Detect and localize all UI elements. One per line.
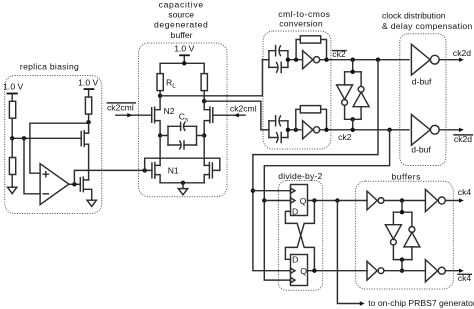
transistor N2 right drain lead: [204, 101, 210, 110]
dashed box clock distribution: [400, 34, 446, 166]
node M1 drain dot: [86, 120, 90, 124]
node bias input dot: [143, 168, 147, 172]
wire latch right branch upper: [360, 72, 362, 87]
node ck2bar clk1 dot: [251, 189, 255, 193]
buffer d-buf bottom triangle: [411, 114, 430, 145]
node left source dot: [158, 133, 162, 137]
inverter U2 triangle: [303, 51, 313, 69]
wire keeper2 left lower: [392, 245, 394, 260]
flip-flop FF1 body: [291, 185, 308, 216]
node supply rail dot: [182, 61, 186, 65]
resistor R1 (upper divider): [9, 101, 15, 118]
transistor N1 right drain lead: [204, 164, 209, 166]
feedback resistor RF2: [300, 106, 320, 113]
wire cross-couple Q1 to D2: [285, 201, 314, 260]
svg-text:buffer: buffer: [171, 30, 193, 40]
capacitor Cs bottom edge with plates: [168, 144, 197, 146]
svg-text:1.0 V: 1.0 V: [3, 81, 23, 91]
svg-text:D: D: [292, 254, 298, 264]
wire R1 to node A: [11, 118, 13, 138]
wire left source to N1: [159, 136, 161, 166]
inverter U8 triangle (down): [385, 225, 401, 240]
wire node to R2: [11, 138, 13, 157]
svg-text:ck4: ck4: [458, 187, 472, 197]
wire keeper2 right upper: [411, 212, 413, 226]
svg-text:D: D: [292, 206, 298, 216]
transistor N1 left drain lead: [155, 164, 160, 166]
resistor R2 (lower divider): [9, 158, 15, 175]
ground (N1 tail): [178, 189, 187, 195]
node keeper2 top dot: [400, 210, 404, 214]
inverter U6 bubble: [378, 198, 384, 204]
arrow ck2cml-bar (points right): [127, 113, 132, 117]
capacitor C2b bottom edges: [269, 137, 288, 139]
wire ck2cml-bar input stub: [116, 114, 152, 116]
transistor N1 right channel bar: [208, 163, 210, 179]
wire bottom channel input: [261, 129, 269, 131]
wire RL left to drain node: [159, 91, 161, 96]
wire FF2 Q output to buffers: [308, 270, 368, 272]
node latch top dot: [351, 58, 355, 62]
node RF1 output dot: [324, 58, 328, 62]
transistor M2 drain lead: [83, 179, 88, 181]
op-amp plus sign: [43, 172, 48, 177]
capacitor Cs top edge with plates: [168, 125, 197, 127]
svg-text:replica biasing: replica biasing: [20, 61, 79, 71]
transistor N2 left gate bar: [151, 108, 153, 123]
supply bar buffer: [179, 54, 190, 56]
node RF2 output dot: [324, 128, 328, 132]
inverter U11 triangle (large): [425, 260, 437, 282]
node op-amp output dot: [72, 182, 76, 186]
svg-text:conversion: conversion: [279, 19, 323, 29]
feedback resistor RF1: [300, 36, 320, 43]
inverter U6 triangle: [367, 191, 377, 210]
arrow ck4: [459, 198, 464, 202]
wire latch bottom stem: [352, 119, 354, 130]
arrow ck2d: [459, 58, 464, 62]
wire node to op-amp minus input: [24, 138, 40, 194]
node A wire to M1 gate: [12, 137, 81, 139]
transistor M1 drain lead: [84, 122, 88, 133]
wire ck4 output: [445, 200, 460, 202]
node ck2bar branch dot: [376, 58, 380, 62]
wire ck2d-bar output: [439, 129, 460, 131]
inverter U9 bubble: [409, 227, 415, 233]
inverter U11 bubble: [438, 267, 445, 274]
wire N1 source rail: [160, 182, 204, 184]
node N1 source rail dot: [181, 181, 185, 185]
capacitor C2b plates: [276, 132, 281, 144]
svg-text:degenerated: degenerated: [154, 20, 208, 30]
overline ck4-bar: [458, 273, 471, 275]
wire ck4-bar output: [445, 270, 460, 272]
node A second junction dot: [22, 136, 26, 140]
supply bar left: [7, 93, 18, 95]
ground (left divider): [8, 187, 17, 193]
wire feedback to op-amp plus input: [30, 123, 89, 173]
flip-flop FF1 clk1 triangle: [291, 188, 296, 193]
node PRBS tap dot: [335, 198, 339, 202]
inverter U5 triangle (up): [353, 92, 369, 107]
svg-text:ck2cml: ck2cml: [107, 102, 134, 112]
transistor N1 right source lead: [204, 175, 209, 183]
wire clk2 branch to FF1: [264, 200, 290, 202]
wire keeper2 left upper: [392, 212, 394, 225]
inverter U4 bubble: [342, 100, 348, 106]
wire N1 rail to ground: [182, 183, 184, 189]
node keeper2 bottom loop dot: [400, 257, 404, 261]
capacitor loop bottom channel frame: [269, 121, 301, 138]
wire bias output to N1 gates: [74, 170, 151, 184]
wire left output up to cml top channel: [160, 60, 262, 96]
capacitor C2a plates: [276, 115, 281, 127]
svg-text:Q: Q: [300, 196, 307, 206]
capacitor loop top channel frame: [269, 51, 301, 68]
svg-text:N2: N2: [164, 106, 175, 116]
wire latch top loop: [345, 71, 362, 73]
wire RL right to drain node: [203, 91, 205, 102]
wire keeper2 bottom stem: [401, 260, 403, 271]
capacitor C1b bottom edges: [269, 66, 288, 68]
node FF2 Q dot: [312, 269, 316, 273]
node left drain dot: [158, 94, 162, 98]
wire ck2bar output: [320, 59, 410, 61]
transistor M1 source lead: [84, 144, 88, 180]
wire latch left branch upper: [344, 72, 346, 85]
wire right output down to cml bottom channel: [204, 101, 261, 130]
wire ck2 output: [320, 129, 410, 131]
capacitor C2a top edges: [269, 120, 288, 122]
capacitor Cs bottom plates: [179, 140, 184, 149]
inverter U7 bubble: [438, 197, 445, 204]
transistor N1 left source lead: [155, 175, 160, 183]
wire U6 to U7: [384, 200, 426, 202]
wire keeper2 right lower: [411, 247, 413, 260]
capacitor Cs top plates: [181, 122, 186, 131]
transistor N2 left drain lead: [155, 96, 161, 110]
dashed box buffers: [355, 181, 453, 289]
svg-text:1.0 V: 1.0 V: [78, 77, 98, 87]
transistor M2 source lead: [83, 189, 91, 200]
overline ck2-bar: [333, 50, 347, 52]
capacitor C1b plates: [276, 62, 281, 74]
svg-text:ck2: ck2: [338, 132, 352, 142]
resistor RL right: [201, 74, 207, 91]
transistor N1 right gate bar: [211, 163, 213, 178]
svg-text:1.0 V: 1.0 V: [174, 43, 194, 53]
transistor M2 channel bar: [82, 177, 84, 191]
wire supply stem: [183, 56, 185, 63]
svg-text:ck2cml: ck2cml: [230, 103, 257, 113]
dashed box buffer: [139, 43, 228, 197]
wire top channel input: [262, 59, 269, 61]
capacitor C1a plates: [276, 45, 281, 57]
transistor N2 left source lead: [155, 121, 161, 136]
transistor N2 left channel bar: [154, 107, 156, 123]
svg-text:buffers: buffers: [392, 172, 421, 182]
transistor N2 right source lead: [204, 121, 210, 136]
inverter U10 triangle: [367, 261, 377, 280]
wire U10 to U11: [384, 270, 426, 272]
inverter U3 triangle: [303, 121, 313, 139]
resistor RL left: [157, 74, 163, 91]
wire ck2 to divider clk: [264, 130, 389, 280]
node FF1 Q dot: [312, 198, 316, 202]
wire ck2d output: [439, 59, 460, 61]
wire latch right branch lower: [360, 107, 362, 120]
node latch top loop dot: [351, 70, 355, 74]
inverter U10 bubble: [378, 268, 384, 274]
overline for ck2cml-bar: [107, 102, 135, 104]
wire supply to R3: [88, 90, 90, 97]
transistor N2 right channel bar: [209, 107, 211, 123]
buffer d-buf top bubble: [430, 55, 439, 64]
arrow ck2cml (points left): [234, 113, 239, 117]
svg-text:N1: N1: [168, 166, 179, 176]
svg-text:to on-chip PRBS7 generator: to on-chip PRBS7 generator: [368, 298, 474, 308]
inverter U9 triangle (up): [404, 232, 420, 247]
flip-flop FF1 clk2 triangle: [291, 198, 296, 203]
buffer d-buf top triangle: [411, 44, 430, 75]
capacitor Cs loop frame: [160, 126, 204, 145]
wire R2 to ground: [11, 175, 13, 188]
flip-flop FF2 body: [291, 255, 308, 286]
dashed box cml-to-cmos: [263, 31, 331, 149]
node top interstage dot: [400, 198, 404, 202]
wire right source to N1: [203, 136, 205, 166]
wire keeper2 top stem: [401, 201, 403, 213]
wire latch bottom loop: [345, 118, 362, 120]
wire ck2cml input stub: [213, 114, 245, 116]
transistor N1 left channel bar: [154, 163, 156, 179]
flip-flop FF2 clk2 triangle: [291, 277, 296, 282]
wire ck2bar to divider clk: [253, 60, 378, 271]
wire keeper2 top loop: [393, 211, 412, 213]
transistor N2 right gate bar: [212, 108, 214, 123]
dashed box replica biasing: [5, 76, 102, 214]
inverter U2 bubble: [314, 57, 320, 63]
node right source dot: [202, 133, 206, 137]
capacitor C1a top edges: [269, 50, 288, 52]
wire bias rail over N1: [145, 158, 220, 170]
transistor N1 left gate bar: [151, 163, 153, 178]
node ck2 clk2 dot: [262, 198, 266, 202]
op-amp U1: [40, 164, 69, 205]
node right drain dot: [202, 99, 206, 103]
svg-text:ck2d: ck2d: [453, 48, 471, 58]
svg-text:d-buf: d-buf: [411, 144, 431, 154]
ground (M2 source): [87, 200, 96, 206]
transistor M1 channel bar: [83, 131, 85, 147]
wire keeper2 bottom loop: [393, 259, 412, 261]
buffer d-buf bottom bubble: [430, 125, 439, 134]
node top channel input dot: [286, 58, 290, 62]
feedback resistor RF2 leads: [296, 109, 327, 130]
wire top rail: [160, 63, 204, 73]
transistor M1 gate bar: [80, 132, 82, 146]
wire op-amp output to M2 gate: [69, 183, 80, 185]
inverter U7 triangle (large): [425, 189, 437, 211]
wire cross-couple D1 to Q2: [285, 211, 314, 270]
wire latch top stem: [352, 60, 354, 72]
svg-text:source: source: [168, 9, 194, 19]
wire latch left branch lower: [344, 105, 346, 119]
node latch bottom loop dot: [351, 117, 355, 121]
feedback resistor RF1 leads: [296, 40, 326, 60]
transistor M2 gate bar: [79, 178, 81, 191]
flip-flop FF2 clk1 triangle: [291, 268, 296, 273]
svg-text:capacitive: capacitive: [159, 0, 204, 9]
supply bar right: [84, 88, 95, 90]
node latch bottom dot: [351, 128, 355, 132]
node A junction dot: [10, 136, 14, 140]
wire PRBS tap: [337, 201, 360, 304]
wire clk1 branch to FF1: [253, 190, 291, 192]
inverter U5 bubble: [358, 86, 364, 92]
op-amp minus sign: [43, 193, 48, 195]
wire FF1 Q output to buffers: [308, 200, 368, 202]
arrow PRBS: [360, 301, 365, 305]
svg-text:d-buf: d-buf: [412, 76, 432, 86]
wire supply to R1: [11, 94, 13, 101]
svg-text:& delay compensation: & delay compensation: [382, 21, 473, 31]
inverter U4 triangle (down): [337, 85, 353, 100]
node bottom feedback tap dot: [294, 128, 298, 132]
node bottom channel input dot: [286, 128, 290, 132]
svg-text:clock distribution: clock distribution: [382, 11, 446, 21]
arrow ck4-bar: [459, 269, 464, 273]
svg-text:cml-to-cmos: cml-to-cmos: [278, 9, 330, 19]
node top feedback tap dot: [294, 58, 298, 62]
wire R3 to M1 drain node: [88, 114, 90, 122]
node ck2 branch dot: [387, 128, 391, 132]
inverter U8 bubble: [391, 239, 397, 245]
svg-text:divide-by-2: divide-by-2: [278, 171, 322, 181]
node keeper2 bottom dot: [400, 269, 404, 273]
arrow ck2d-bar: [459, 128, 464, 132]
overline ck2d-bar: [454, 134, 472, 136]
inverter U3 bubble: [314, 127, 320, 133]
resistor R3 (replica load): [85, 97, 91, 114]
dashed box divide-by-2: [278, 181, 322, 291]
svg-text:Q: Q: [300, 266, 307, 276]
